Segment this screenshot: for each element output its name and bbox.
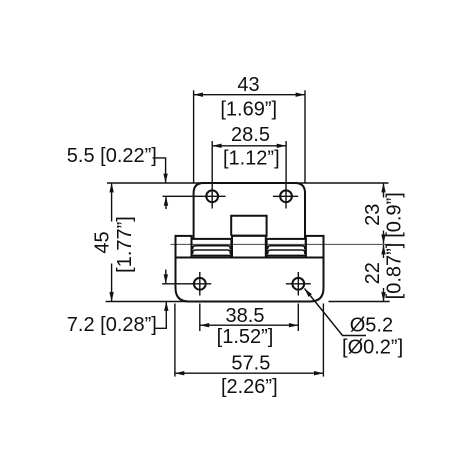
svg-text:45: 45 [91,231,113,253]
svg-text:[1.12”]: [1.12”] [223,148,280,170]
top plate [194,183,305,239]
svg-text:[1.52”]: [1.52”] [217,326,274,348]
svg-text:[1.77”]: [1.77”] [114,216,136,273]
svg-text:[Ø0.2”]: [Ø0.2”] [342,337,403,359]
left knurl ridges [193,246,231,250]
barrel left end cap [176,236,192,258]
right knurl ridges [268,246,305,250]
svg-text:38.5: 38.5 [226,305,265,327]
hole bottom-right [292,278,304,290]
centerline of hinge pivot [171,243,392,245]
dim 38.5: extension lines [199,304,201,332]
hole bottom-left [194,278,206,290]
svg-text:43: 43 [237,74,259,96]
barrel right end cap [306,236,324,258]
hole top-left [206,190,218,202]
dim 7.2: down arrow to hole line [165,270,167,284]
svg-text:7.2 [0.28”]: 7.2 [0.28”] [67,314,157,336]
dim 43: dimension line with arrows [194,94,305,96]
hinge knuckle tab [231,216,266,236]
svg-text:[0.9”]: [0.9”] [384,192,406,238]
right knurl section [267,239,306,258]
dim 57.5: dimension line with arrows [175,372,324,374]
svg-text:[1.69”]: [1.69”] [220,99,277,121]
dim 38.5: dimension line with arrows [200,324,298,326]
hole top-right [280,190,292,202]
dim 23: dimension line with arrows [383,183,385,198]
dim 28.5: extension lines [211,141,213,183]
extension line: bottom edge y=301.5 [106,301,311,303]
svg-text:23: 23 [362,204,384,226]
hole diameter callout leader [305,289,367,336]
dim 57.5: extension lines [174,304,176,377]
barrel center section [232,236,266,258]
svg-text:57.5: 57.5 [231,353,270,375]
left knurl section [192,239,232,258]
extension line: top edge y=183 [107,182,389,184]
bottom plate [176,236,324,302]
svg-text:[2.26”]: [2.26”] [221,376,278,398]
svg-text:[0.87”]: [0.87”] [384,243,406,300]
dim 43: extension lines [193,90,195,183]
svg-text:Ø5.2: Ø5.2 [350,314,393,336]
dim 45: dimension line with arrows [111,183,113,222]
dim 5.5 leader: down arrow to top edge [153,158,166,183]
svg-text:22: 22 [362,262,384,284]
svg-text:28.5: 28.5 [231,124,270,146]
dim 22: dimension line with arrows [383,245,385,258]
svg-text:5.5 [0.22”]: 5.5 [0.22”] [67,145,157,167]
dim 5.5: up arrow to hole line [165,196,167,209]
dim 28.5: dimension line with arrows [212,145,286,147]
dim 7.2 leader: up arrow to bottom edge [156,302,167,328]
